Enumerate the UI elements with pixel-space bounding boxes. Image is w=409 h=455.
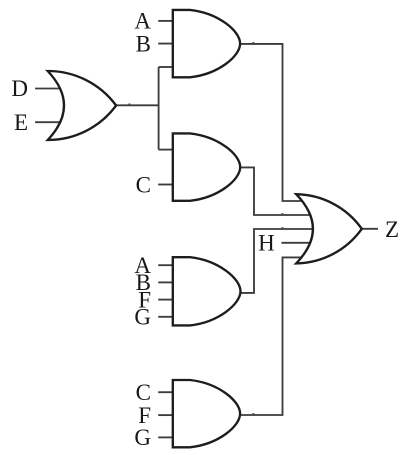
svg-text:H: H (258, 231, 275, 256)
crossover tick on AND4 output (252, 413, 254, 414)
svg-text:E: E (14, 110, 28, 135)
crossover tick on OR1 output (128, 104, 130, 105)
wire input C to AND4 (158, 391, 174, 393)
and-gate AND3 (inputs A,B,F,G) (173, 257, 241, 325)
wire input A to AND1 (158, 20, 174, 22)
svg-text:B: B (136, 31, 151, 56)
svg-text:G: G (134, 305, 151, 330)
wire input D to OR1 (35, 88, 62, 90)
svg-text:G: G (134, 425, 151, 450)
wire AND3 output to OR2 pin3 (238, 229, 314, 293)
wire input F to AND4 (158, 414, 174, 416)
wire junction to AND2 pin1 (159, 149, 174, 151)
svg-text:F: F (138, 403, 151, 428)
svg-text:A: A (134, 9, 151, 34)
crossover tick on AND1 output (252, 42, 254, 43)
wire input F to AND3 (158, 299, 174, 301)
wire input E to OR1 (35, 121, 62, 123)
and-gate AND1 (inputs A,B,OR1) (173, 10, 240, 77)
wire input B to AND1 (158, 43, 174, 45)
wire junction vertical to AND1/AND2 (158, 67, 160, 150)
wire input G to AND3 (158, 316, 174, 318)
svg-text:Z: Z (385, 217, 399, 242)
wire input A to AND3 (158, 264, 174, 266)
wire input G to AND4 (158, 436, 174, 438)
crossover tick on OR2 pin2 wire (281, 213, 283, 214)
and-gate AND4 (inputs C,F,G) (173, 380, 240, 447)
or-gate OR1 (inputs D,E) (48, 71, 116, 140)
wire AND2 output to OR2 pin2 (238, 167, 312, 215)
wire OR2 output to Z (360, 228, 378, 230)
and-gate AND2 (inputs OR1,C) (173, 133, 240, 200)
wire AND1 output to OR2 pin1 (238, 44, 304, 201)
or-gate OR2 (output Z) (296, 194, 362, 263)
wire AND4 output to OR2 pin5 (238, 257, 305, 415)
wire input B to AND3 (158, 281, 174, 283)
wire OR1 output to junction (114, 104, 159, 106)
wire input H to OR2 pin4 (281, 242, 312, 244)
svg-text:C: C (136, 172, 151, 197)
svg-text:D: D (11, 76, 28, 101)
crossover tick on OR2 pin3 wire (281, 227, 283, 228)
svg-text:C: C (136, 380, 151, 405)
wire input C to AND2 (158, 184, 174, 186)
wire junction to AND1 pin3 (159, 66, 174, 68)
